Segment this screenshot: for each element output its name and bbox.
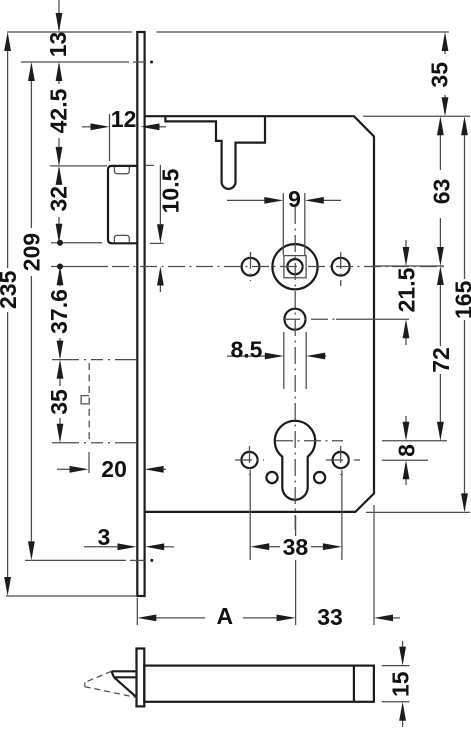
side view latch bolt extended dashed bbox=[85, 671, 137, 697]
lower left screw hole bbox=[241, 452, 257, 468]
small hole right bbox=[314, 472, 325, 483]
dimension 15 bbox=[382, 641, 414, 727]
extension line case bottom right bbox=[366, 511, 470, 513]
main vertical centerline bbox=[294, 207, 296, 530]
reference dot latch bottom bbox=[57, 240, 63, 246]
svg-text:38: 38 bbox=[283, 534, 309, 560]
dimension 209 bbox=[19, 62, 45, 560]
dimension 21.5 bbox=[394, 240, 420, 345]
extension line top of faceplate left bbox=[7, 31, 132, 33]
svg-text:10.5: 10.5 bbox=[158, 168, 184, 213]
deadbolt dashed box bottom edge bbox=[52, 442, 137, 444]
dimension A and 33 bbox=[137, 505, 400, 630]
lower right screw hole vertical tick bbox=[340, 446, 342, 475]
upper left screw hole bbox=[242, 258, 260, 276]
side view lock body bbox=[144, 666, 374, 702]
lower right screw hole bbox=[333, 452, 349, 468]
dimension 9 bbox=[227, 186, 341, 255]
small hole left bbox=[266, 472, 277, 483]
internal top contour with spring tab bbox=[165, 116, 265, 189]
side view body end cap line bbox=[353, 666, 355, 702]
dimension 35 left bbox=[46, 360, 72, 443]
svg-text:21.5: 21.5 bbox=[394, 267, 420, 312]
centerline bottom screw y560 bbox=[25, 559, 126, 561]
side view faceplate bbox=[137, 649, 145, 707]
lower left screw hole ticks bbox=[235, 459, 264, 461]
svg-text:235: 235 bbox=[0, 270, 21, 309]
svg-text:9: 9 bbox=[288, 186, 301, 212]
main horizontal centerline through follower bbox=[51, 266, 108, 268]
svg-text:165: 165 bbox=[451, 280, 471, 319]
middle hole bbox=[285, 309, 306, 330]
svg-text:3: 3 bbox=[98, 524, 111, 550]
side view latch bolt solid bbox=[112, 671, 137, 697]
svg-text:8: 8 bbox=[394, 444, 420, 457]
cylinder centerline extension right bbox=[382, 440, 447, 442]
svg-text:20: 20 bbox=[101, 456, 127, 482]
upper right screw hole bbox=[332, 258, 350, 276]
svg-text:13: 13 bbox=[45, 32, 71, 58]
dimension 8.5 bbox=[227, 332, 326, 389]
follower inner circle bbox=[287, 259, 302, 274]
dimension 3 bbox=[84, 524, 174, 550]
latch cutout box bbox=[108, 166, 137, 243]
profile cylinder hole bbox=[275, 421, 315, 500]
svg-text:42.5: 42.5 bbox=[46, 88, 72, 133]
extension line latch box top left bbox=[50, 165, 107, 167]
middle hole centerline extension right bbox=[336, 318, 409, 320]
follower square spindle hole bbox=[284, 256, 306, 278]
follower (spindle hub) outer circle bbox=[272, 244, 317, 289]
extension tick latch top right of faceplate bbox=[145, 164, 154, 166]
reference dot follower centerline bbox=[57, 264, 63, 270]
middle hole centerline bbox=[283, 318, 336, 320]
extension tick latch bottom right of faceplate bbox=[150, 242, 164, 244]
svg-text:63: 63 bbox=[429, 179, 455, 205]
svg-text:12: 12 bbox=[111, 106, 137, 132]
reference leader latch bottom bbox=[51, 242, 102, 244]
dimension 35 right top bbox=[427, 32, 453, 116]
lower screw holes centerline bbox=[326, 459, 360, 461]
faceplate front view bbox=[137, 32, 144, 596]
svg-text:37.6: 37.6 bbox=[46, 289, 72, 334]
dimension 32 bbox=[46, 166, 72, 243]
extension line bottom of faceplate bbox=[6, 595, 136, 597]
latch box top tab bbox=[114, 167, 129, 174]
deadbolt dashed box top edge bbox=[52, 359, 137, 361]
dimension 12 bbox=[82, 106, 166, 161]
svg-text:35: 35 bbox=[46, 389, 72, 415]
deadbolt small tab symbol bbox=[81, 396, 89, 404]
latch box bottom tab bbox=[114, 235, 129, 242]
dimension 72 bbox=[428, 266, 454, 441]
extension line y266 right of case bbox=[374, 265, 444, 267]
svg-text:35: 35 bbox=[427, 62, 453, 88]
dimension 38 bbox=[250, 470, 342, 560]
centerline top screw y62 bbox=[21, 61, 129, 63]
extension line top right bbox=[157, 31, 450, 33]
upper left screw hole vertical tick bbox=[250, 252, 252, 281]
dimension 165 bbox=[451, 116, 471, 512]
svg-text:72: 72 bbox=[428, 347, 454, 373]
dimension 63 bbox=[429, 116, 455, 266]
dimension 10.5 bbox=[157, 165, 184, 292]
deadbolt dashed box left edge bbox=[88, 363, 90, 440]
dimension 13 bbox=[45, 0, 71, 57]
dimension 20 bbox=[57, 452, 166, 482]
svg-text:A: A bbox=[216, 603, 233, 629]
extension line case top right bbox=[363, 115, 470, 117]
lock case outline bbox=[145, 116, 374, 512]
lower screw centerline extension right bbox=[382, 459, 428, 461]
svg-text:15: 15 bbox=[388, 671, 414, 697]
svg-text:32: 32 bbox=[46, 186, 72, 212]
svg-text:33: 33 bbox=[317, 604, 343, 630]
dimension 37.6 bbox=[46, 266, 72, 359]
dimension 8 right bbox=[394, 416, 420, 485]
svg-text:8.5: 8.5 bbox=[231, 337, 263, 363]
dimension 42.5 bbox=[46, 62, 72, 166]
dimension 235 bbox=[0, 32, 21, 596]
cylinder centerline bbox=[276, 440, 343, 442]
upper right screw hole vertical tick bbox=[340, 252, 342, 286]
svg-text:209: 209 bbox=[19, 233, 45, 271]
